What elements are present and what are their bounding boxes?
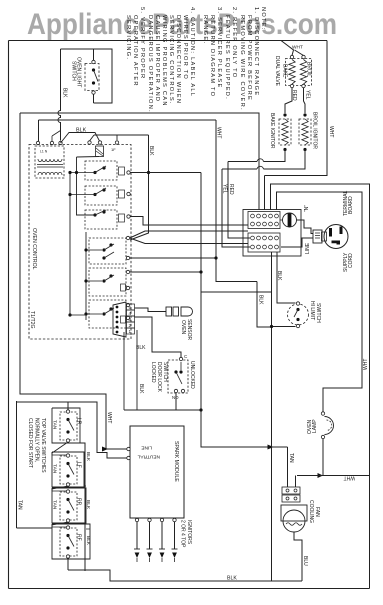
wire TAN spur to RF xyxy=(17,527,53,529)
svg-text:BLK: BLK xyxy=(276,271,282,281)
wire to BLK rail xyxy=(201,291,272,293)
svg-text:LAMP: LAMP xyxy=(312,419,318,433)
broil ignitor E2 xyxy=(303,113,306,116)
svg-text:DUAL VALVE: DUAL VALVE xyxy=(274,56,280,87)
relay K1 xyxy=(85,161,117,180)
svg-text:CORD: CORD xyxy=(348,253,354,268)
svg-text:BROIL IGNITOR: BROIL IGNITOR xyxy=(312,112,318,149)
transformer secondary winding xyxy=(38,172,62,175)
svg-text:1. DISCONNECT RANGE: 1. DISCONNECT RANGE xyxy=(253,7,259,96)
wire relay K5 feed xyxy=(86,280,102,282)
svg-text:BLU: BLU xyxy=(302,556,308,566)
junction BLK rail / relay wire xyxy=(147,171,150,174)
svg-text:DOOR LOCK: DOOR LOCK xyxy=(156,362,162,393)
ignitor output leads xyxy=(136,522,138,549)
svg-text:WHT: WHT xyxy=(106,412,112,423)
svg-text:3. SERVICER PLEASE: 3. SERVICER PLEASE xyxy=(216,7,222,89)
wire WHT right rail outer / border right xyxy=(271,184,370,589)
wire WHT right rail inner to oven lamp xyxy=(277,192,363,412)
wire YEL broil valve to broil ignitor xyxy=(304,88,306,114)
wire chain to RF xyxy=(52,522,68,527)
svg-text:WIRING PROBLEMS CAN: WIRING PROBLEMS CAN xyxy=(161,15,167,107)
wire BLK jog to bottom rail xyxy=(257,282,272,328)
wire relay K4 feed xyxy=(86,249,102,251)
wire stub to LR switch xyxy=(67,402,69,410)
wire oven light loop xyxy=(61,49,113,103)
cooling fan motor B1 xyxy=(281,505,307,521)
top valve switch RF xyxy=(52,524,90,559)
svg-text:OVEN: OVEN xyxy=(180,320,186,335)
wire TAN left rail xyxy=(16,401,18,528)
spark module output terminals xyxy=(135,518,138,521)
svg-text:WIRES PRIOR TO: WIRES PRIOR TO xyxy=(182,15,188,80)
wire BLK to door lock switch xyxy=(135,317,182,358)
wire rail B horizontal xyxy=(39,119,217,121)
svg-text:SERVICING.: SERVICING. xyxy=(125,15,131,60)
relay lower common rail xyxy=(85,232,87,320)
relay K5 xyxy=(89,268,126,296)
relay K2 xyxy=(85,186,117,205)
wire relay K2 coil feed xyxy=(70,194,95,196)
svg-text:LF: LF xyxy=(76,462,82,468)
svg-text:BLK: BLK xyxy=(148,146,154,156)
wire hi limit to BLK rail xyxy=(272,326,296,328)
svg-text:SWITCH: SWITCH xyxy=(162,362,168,382)
svg-text:RETURN DIAGRAM TO: RETURN DIAGRAM TO xyxy=(209,15,215,97)
top valve switch RR xyxy=(52,488,86,523)
svg-text:YEL: YEL xyxy=(305,90,311,100)
bake ignitor E1 xyxy=(283,113,286,116)
hi limit switch S3 xyxy=(288,304,309,325)
svg-text:NEUTRAL: NEUTRAL xyxy=(137,454,160,460)
border bottom edge xyxy=(9,588,370,590)
svg-text:FAN: FAN xyxy=(314,507,320,517)
wire junction horizontal xyxy=(124,409,201,411)
svg-text:RF: RF xyxy=(76,534,82,541)
svg-text:T1/T2G: T1/T2G xyxy=(29,311,35,329)
svg-text:FEATURES EQUIPPED.: FEATURES EQUIPPED. xyxy=(224,15,230,100)
svg-text:WHT: WHT xyxy=(292,45,303,51)
ground symbol xyxy=(315,233,320,238)
junction rail B xyxy=(214,256,217,259)
svg-text:TAN: TAN xyxy=(52,464,58,474)
svg-text:BLK: BLK xyxy=(62,88,68,98)
svg-text:NOTE:: NOTE: xyxy=(260,7,266,31)
spark module A1 box xyxy=(130,426,184,518)
wire BLK connector to spark area xyxy=(123,332,125,410)
wire BLK valve switch bus xyxy=(80,443,85,571)
wire relay K1 out xyxy=(130,172,201,174)
transformer core xyxy=(37,165,63,168)
wire relay K3 to terminal strip xyxy=(130,217,248,226)
svg-text:BLK: BLK xyxy=(138,384,144,394)
junction arrow xyxy=(268,445,274,450)
junction xyxy=(270,325,273,328)
svg-text:BAKE IGNITOR: BAKE IGNITOR xyxy=(269,113,275,149)
wire line to supply cord xyxy=(281,238,313,247)
wire rail to terminal board xyxy=(20,113,259,210)
wire BLK to hi-limit xyxy=(277,252,296,303)
svg-text:4: 4 xyxy=(129,311,132,316)
wire to oven sensor xyxy=(135,308,167,312)
svg-text:1: 1 xyxy=(129,329,132,334)
wire BLU fan to bottom rail xyxy=(294,532,302,581)
svg-text:COOLING: COOLING xyxy=(308,500,314,523)
svg-text:UNLOCKED: UNLOCKED xyxy=(189,361,195,389)
svg-text:CLOSED FOR START: CLOSED FOR START xyxy=(27,418,33,468)
wire bake ignitor return xyxy=(228,150,285,162)
svg-text:SERVICING CONTROLS.: SERVICING CONTROLS. xyxy=(168,15,174,105)
junction arrow xyxy=(318,473,324,478)
wire YEL to lower strip xyxy=(222,169,250,247)
svg-text:BOARD: BOARD xyxy=(348,196,354,214)
junction xyxy=(199,408,202,411)
wire breaker to supply cord xyxy=(297,220,314,234)
wire BLK relay rail xyxy=(130,135,149,240)
door lock switch S2 xyxy=(168,360,188,393)
svg-text:5. VERIFY PROPER: 5. VERIFY PROPER xyxy=(139,7,145,79)
wire terminal to cluster xyxy=(264,176,266,211)
wire TAN to fan connector xyxy=(287,447,289,487)
wire oven lamp to WHT xyxy=(322,439,324,476)
broil valve coil xyxy=(302,55,305,58)
relay K6 xyxy=(89,300,126,328)
relay K4 xyxy=(89,238,126,264)
svg-text:WHT: WHT xyxy=(328,126,334,137)
wire rail B down xyxy=(216,120,257,282)
dual gas valve V1 box xyxy=(286,59,312,86)
wire strip to breaker xyxy=(280,219,283,221)
svg-text:1F: 1F xyxy=(111,147,116,152)
wire to transformer L1 xyxy=(38,120,40,141)
svg-text:TOP VALVE SWITCHES: TOP VALVE SWITCHES xyxy=(40,418,46,473)
terminal board TB1 outer box xyxy=(243,210,301,257)
svg-text:LR: LR xyxy=(76,418,82,425)
wire TAN to spark module NEUTRAL xyxy=(17,402,127,458)
svg-text:WHT: WHT xyxy=(363,359,369,370)
wire chain to RR xyxy=(52,486,68,491)
fuse / circuit breaker CB1 xyxy=(283,213,297,227)
wire door lock NO output xyxy=(175,393,177,410)
svg-text:“N”: “N” xyxy=(304,205,310,212)
svg-text:BROIL: BROIL xyxy=(306,62,312,77)
wire BLK bridge to relay xyxy=(61,133,100,144)
svg-text:DISCONNECTION WHEN: DISCONNECTION WHEN xyxy=(175,15,181,104)
svg-text:OVEN CONTROL: OVEN CONTROL xyxy=(31,228,37,270)
svg-text:2 OR 4 TOP: 2 OR 4 TOP xyxy=(180,520,186,548)
wire WHT to cooling fan xyxy=(295,476,297,488)
wire WHT feed to dual valve xyxy=(281,41,294,56)
wire to transformer mid pin xyxy=(52,131,61,142)
wire WHT cluster right edge xyxy=(265,41,328,176)
wire RED to lower strip xyxy=(228,162,250,239)
wire WHT left rail to spark module LINE xyxy=(20,113,127,449)
junction feed xyxy=(68,313,71,316)
svg-text:FROM POWER BEFORE: FROM POWER BEFORE xyxy=(246,15,252,101)
svg-text:DANGEROUS OPERATION.: DANGEROUS OPERATION. xyxy=(147,15,153,113)
svg-text:TAN: TAN xyxy=(288,453,294,463)
svg-text:CAUSE IMPROPER AND: CAUSE IMPROPER AND xyxy=(154,15,160,102)
svg-text:BLK: BLK xyxy=(85,500,91,510)
svg-text:BLK: BLK xyxy=(136,345,146,351)
svg-text:RED: RED xyxy=(228,184,234,195)
svg-text:WHT: WHT xyxy=(344,475,355,481)
svg-text:WHT: WHT xyxy=(216,127,222,138)
wire BLK oven light to transformer xyxy=(58,49,61,141)
wire relay K6 feed xyxy=(86,313,102,315)
svg-text:TAN: TAN xyxy=(52,420,58,430)
svg-text:SENSOR: SENSOR xyxy=(186,319,192,341)
wire chain to LF xyxy=(52,442,68,455)
wire relay K5 out xyxy=(130,271,201,273)
svg-text:5: 5 xyxy=(129,305,132,310)
svg-text:YEL: YEL xyxy=(222,184,228,194)
terminal LINE xyxy=(127,447,130,450)
svg-text:BLK: BLK xyxy=(85,452,91,462)
svg-text:LINE: LINE xyxy=(305,242,311,254)
svg-text:IGNITORS: IGNITORS xyxy=(186,520,192,545)
wire RED bake valve to bake ignitor xyxy=(285,88,292,114)
bake valve coil xyxy=(290,55,293,58)
top valve switch LR xyxy=(52,408,80,443)
wire BLK bottom rail xyxy=(68,570,302,581)
wire BLK rail to bottom xyxy=(271,252,273,581)
svg-text:3: 3 xyxy=(129,317,132,322)
svg-text:BLK: BLK xyxy=(85,536,91,546)
svg-text:NORMALLY OPEN,: NORMALLY OPEN, xyxy=(34,418,40,462)
connector P1 oven control xyxy=(113,302,126,337)
svg-text:SWITCH: SWITCH xyxy=(315,303,321,323)
terminal strip upper xyxy=(248,212,280,229)
svg-text:TAN: TAN xyxy=(17,500,23,510)
wire RF output xyxy=(67,558,69,571)
svg-text:SWITCH: SWITCH xyxy=(71,61,77,81)
wire to oven light switch top xyxy=(93,49,95,61)
connector P1 pin numbers xyxy=(127,304,135,310)
svg-text:RR: RR xyxy=(76,498,82,506)
terminal NEUTRAL xyxy=(127,456,130,459)
wire relay K1 coil feed xyxy=(70,172,95,174)
svg-text:2. REFER ONLY TO: 2. REFER ONLY TO xyxy=(231,7,237,78)
oven sensor RT1 xyxy=(166,307,172,316)
border left edge xyxy=(8,41,10,589)
wire feed spur xyxy=(70,314,86,316)
svg-text:HI LIMIT: HI LIMIT xyxy=(309,301,315,320)
transformer T1 (oven control) xyxy=(35,146,64,178)
relay K3 xyxy=(85,210,117,229)
oven control box U1 xyxy=(29,145,131,340)
junction arrow xyxy=(102,447,108,452)
border top edge xyxy=(9,40,328,42)
svg-text:L1 N: L1 N xyxy=(40,150,48,154)
svg-text:LINE: LINE xyxy=(141,445,152,451)
wire from oven light switch bottom xyxy=(93,93,95,104)
wire BLK to junction xyxy=(136,330,138,410)
terminal strip lower xyxy=(248,233,280,252)
wire TAN rail to cooling fan xyxy=(201,173,288,448)
svg-text:OPERATION AFTER: OPERATION AFTER xyxy=(132,15,138,87)
supply cord plug P2 xyxy=(313,230,322,243)
svg-text:LOCKED: LOCKED xyxy=(150,362,156,383)
junction xyxy=(199,270,202,273)
svg-text:TAN: TAN xyxy=(52,500,58,510)
wire relay K4 out b xyxy=(130,238,248,244)
svg-text:SPARK MODULE: SPARK MODULE xyxy=(173,441,179,482)
wire tag to rail xyxy=(77,156,100,159)
transformer primary winding xyxy=(38,159,62,162)
svg-text:BLK: BLK xyxy=(258,295,264,305)
svg-text:4. CAUTION: LABEL ALL: 4. CAUTION: LABEL ALL xyxy=(189,7,195,97)
svg-text:RANGE.: RANGE. xyxy=(202,15,208,44)
component tag box xyxy=(96,146,104,157)
oven lamp DS1 xyxy=(321,412,324,415)
oven light switch S1 xyxy=(85,64,99,91)
svg-text:REMOVING WIRE COVER.: REMOVING WIRE COVER. xyxy=(239,15,245,111)
wire relay K4 out a xyxy=(130,231,248,238)
top valve switch LF xyxy=(52,452,84,487)
wire broil ignitor return xyxy=(222,150,305,170)
svg-text:AppliancePartsPros.com: AppliancePartsPros.com xyxy=(27,8,337,41)
relay common rail left xyxy=(77,157,96,215)
wire WHT bottom xyxy=(297,475,370,477)
relay top contacts xyxy=(94,134,149,136)
cooling fan connector xyxy=(282,487,300,494)
svg-text:BLK: BLK xyxy=(227,576,237,582)
svg-text:2: 2 xyxy=(129,323,132,328)
wire relay K4 out c xyxy=(130,257,216,259)
svg-text:BAKE: BAKE xyxy=(282,64,288,78)
